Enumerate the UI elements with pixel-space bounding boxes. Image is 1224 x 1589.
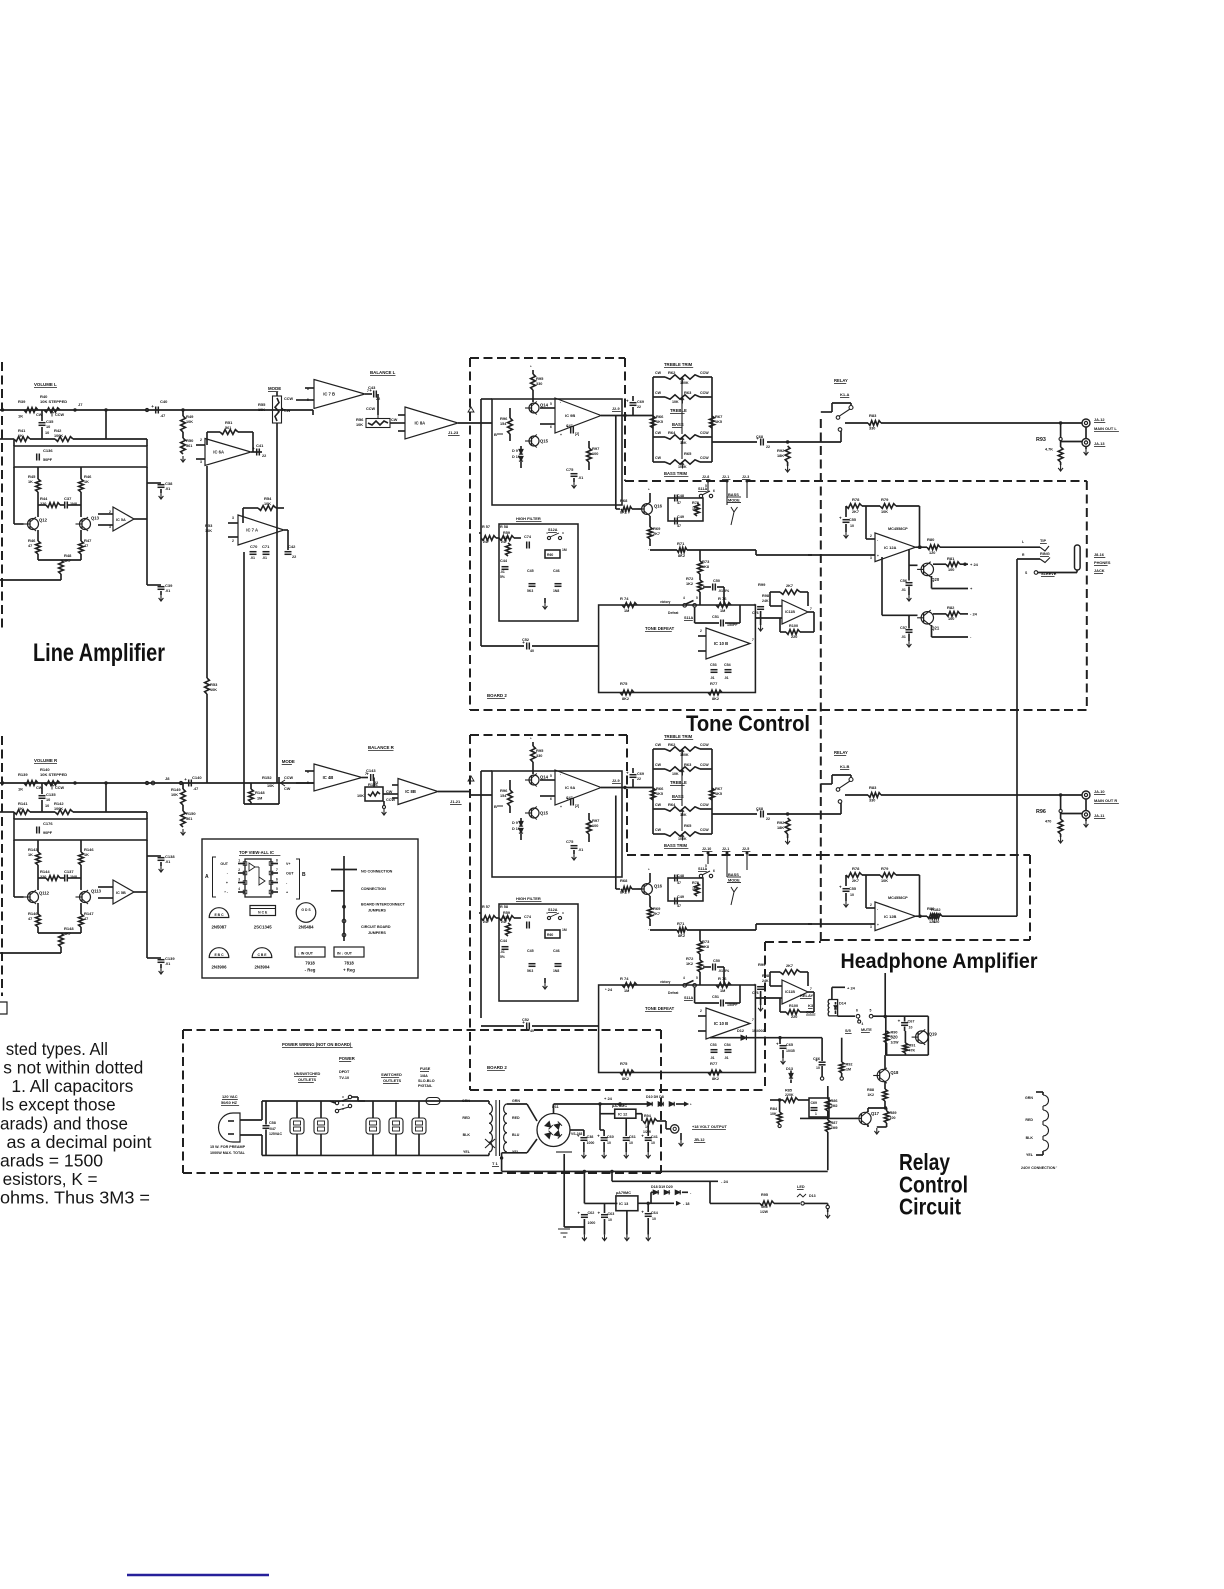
svg-text:SWITCHED: SWITCHED: [381, 1072, 402, 1077]
svg-text:sted types. All: sted types. All: [6, 1039, 108, 1059]
svg-text:JACK: JACK: [1094, 568, 1105, 573]
svg-text:10: 10: [629, 1141, 633, 1145]
svg-text:.01: .01: [901, 635, 906, 639]
svg-text:R39: R39: [18, 399, 26, 404]
svg-text:Q15: Q15: [540, 439, 549, 444]
svg-text:R 58: R 58: [500, 905, 508, 909]
svg-text:+: +: [839, 516, 842, 521]
svg-text:R65: R65: [684, 823, 692, 828]
svg-text:C140: C140: [192, 775, 202, 780]
svg-text:J2-9: J2-9: [612, 407, 620, 411]
svg-text:R54: R54: [264, 496, 272, 501]
svg-text:R96: R96: [500, 788, 508, 793]
svg-text:IC 8A: IC 8A: [415, 421, 426, 426]
svg-text:C64: C64: [651, 1211, 659, 1215]
svg-text:8: 8: [276, 859, 278, 863]
svg-text:R 74: R 74: [620, 976, 629, 981]
svg-text:5: 5: [276, 887, 278, 891]
svg-text:MUTE: MUTE: [861, 1028, 872, 1032]
svg-text:470: 470: [1045, 820, 1051, 824]
svg-text:90PF: 90PF: [43, 831, 53, 835]
svg-text:.01: .01: [250, 556, 255, 560]
svg-text:K1-A: K1-A: [840, 392, 849, 397]
svg-text:* 24: * 24: [605, 987, 613, 992]
svg-text:C47: C47: [566, 424, 573, 428]
svg-text:R92: R92: [846, 1063, 853, 1067]
svg-text:R80: R80: [927, 537, 935, 542]
svg-text:R182: R182: [931, 907, 941, 912]
svg-text:LED: LED: [797, 1185, 805, 1189]
svg-text:R60: R60: [547, 553, 553, 557]
svg-text:+: +: [184, 777, 187, 782]
svg-text:2N3904: 2N3904: [254, 965, 270, 970]
svg-text:+: +: [366, 772, 369, 777]
svg-text:22: 22: [637, 777, 641, 781]
svg-text:.01: .01: [165, 589, 170, 593]
svg-text:2: 2: [700, 629, 702, 633]
svg-text:C137: C137: [64, 869, 74, 874]
svg-text:C65: C65: [786, 1043, 793, 1047]
svg-text:[2]: [2]: [575, 432, 579, 436]
svg-text:.01: .01: [901, 588, 906, 592]
svg-text:4: 4: [862, 1022, 864, 1026]
svg-text:22: 22: [766, 817, 770, 821]
svg-text:R143: R143: [28, 847, 38, 852]
svg-text:R49: R49: [186, 414, 194, 419]
svg-text:8K2: 8K2: [712, 1077, 719, 1081]
svg-text:IC 12A: IC 12A: [884, 545, 897, 550]
svg-text:+: +: [598, 1211, 601, 1216]
svg-text:C68: C68: [756, 807, 763, 811]
svg-text:C46: C46: [553, 569, 560, 573]
svg-text:+: +: [560, 805, 562, 809]
svg-text:Q17: Q17: [871, 1111, 880, 1116]
svg-text:1K5: 1K5: [656, 420, 663, 424]
svg-text:CCW: CCW: [700, 456, 709, 460]
svg-text:3: 3: [870, 556, 872, 560]
svg-text:R 57: R 57: [482, 905, 490, 909]
svg-text:C135: C135: [46, 792, 56, 797]
svg-text:C74: C74: [524, 535, 532, 539]
svg-text:OUTLETS: OUTLETS: [383, 1078, 402, 1083]
svg-text:+: +: [286, 891, 288, 895]
svg-text:R148: R148: [64, 926, 74, 931]
svg-text:UNSWITCHED: UNSWITCHED: [294, 1071, 321, 1076]
svg-text:100: 100: [948, 617, 954, 621]
svg-text:7918: 7918: [305, 961, 315, 966]
svg-text:8K2: 8K2: [712, 697, 719, 701]
svg-text:BOARD 2: BOARD 2: [487, 1065, 507, 1070]
svg-text:1K5: 1K5: [656, 792, 663, 796]
svg-text:R69: R69: [653, 906, 661, 911]
svg-text:MC4558CP: MC4558CP: [888, 527, 908, 531]
svg-text:1: 1: [238, 859, 240, 863]
svg-text:10K: 10K: [680, 441, 687, 445]
svg-text:+: +: [776, 1042, 779, 1047]
svg-text:1M: 1M: [562, 548, 567, 552]
svg-text:R83: R83: [869, 785, 877, 790]
svg-text:7: 7: [752, 638, 754, 642]
svg-text:IC 7 A: IC 7 A: [246, 528, 258, 533]
svg-text:4K7: 4K7: [64, 559, 71, 563]
svg-text:4: 4: [683, 976, 685, 980]
svg-text:IC 10 B: IC 10 B: [714, 1021, 728, 1026]
svg-text:D12: D12: [737, 1029, 744, 1033]
svg-text:IC 8B: IC 8B: [405, 789, 416, 794]
svg-text:BALANCE R: BALANCE R: [368, 745, 395, 750]
svg-text:4K7: 4K7: [64, 932, 71, 936]
svg-text:C52: C52: [522, 1018, 529, 1022]
svg-text:C53: C53: [710, 663, 717, 667]
svg-text:R77: R77: [710, 1061, 718, 1066]
svg-text:10K: 10K: [672, 772, 679, 776]
svg-text:22: 22: [637, 405, 641, 409]
svg-text:+ 24: + 24: [847, 986, 856, 991]
svg-text:+: +: [252, 446, 255, 451]
svg-text:R66: R66: [656, 414, 664, 419]
svg-text:- 24: - 24: [721, 1179, 729, 1184]
svg-text:5: 5: [696, 596, 698, 600]
svg-text:RED: RED: [462, 1116, 470, 1120]
svg-text:R71: R71: [677, 541, 685, 546]
svg-text:C46: C46: [553, 949, 560, 953]
svg-text:C37: C37: [64, 496, 72, 501]
svg-text:MODE: MODE: [728, 878, 740, 883]
svg-text:10K: 10K: [267, 784, 274, 788]
svg-text:Defeat: Defeat: [668, 611, 679, 615]
svg-text:JA-13: JA-13: [1094, 441, 1105, 446]
svg-text:R146: R146: [84, 847, 94, 852]
svg-text:R100: R100: [789, 1004, 798, 1008]
svg-text:CW: CW: [655, 803, 662, 807]
svg-text:CCW: CCW: [366, 407, 375, 411]
svg-text:10: 10: [652, 1217, 656, 1221]
svg-text:+: +: [577, 1134, 580, 1139]
svg-text:7818: 7818: [344, 961, 354, 966]
svg-text:arads) and those: arads) and those: [0, 1113, 128, 1133]
svg-text:R48: R48: [64, 553, 72, 558]
svg-text:J2-1: J2-1: [722, 475, 729, 479]
svg-text:C61: C61: [629, 1135, 636, 1139]
svg-text:MODE: MODE: [728, 498, 740, 503]
svg-text:1M: 1M: [624, 609, 629, 613]
svg-text:.01: .01: [165, 860, 170, 864]
svg-text:1K: 1K: [84, 480, 89, 484]
svg-text:+18 VOLT OUTPUT: +18 VOLT OUTPUT: [692, 1124, 727, 1129]
svg-text:GRN: GRN: [462, 1099, 470, 1103]
svg-text:CW: CW: [655, 456, 662, 460]
svg-text:D18 D19 D20: D18 D19 D20: [651, 1185, 673, 1189]
svg-text:- 18: - 18: [683, 1202, 690, 1206]
svg-text:TOP VIEW-ALL IC: TOP VIEW-ALL IC: [239, 850, 274, 855]
svg-text:.47: .47: [160, 414, 165, 418]
svg-text:R91: R91: [909, 1044, 916, 1048]
svg-text:.01: .01: [165, 487, 170, 491]
svg-text:1K: 1K: [18, 787, 23, 792]
svg-text:Q15: Q15: [540, 811, 549, 816]
svg-text:10: 10: [46, 425, 50, 429]
svg-text:R79: R79: [881, 497, 889, 502]
svg-text:5: 5: [705, 484, 707, 488]
svg-text:561: 561: [186, 444, 192, 448]
svg-text:R149: R149: [171, 787, 181, 792]
svg-text:+: +: [839, 885, 842, 890]
svg-text:C40: C40: [160, 399, 168, 404]
svg-text:22: 22: [262, 454, 266, 458]
svg-text:CW: CW: [655, 828, 662, 832]
svg-text:R95: R95: [761, 1193, 768, 1197]
svg-text:J2-3: J2-3: [742, 475, 749, 479]
svg-text:4: 4: [238, 887, 240, 891]
svg-text:C51: C51: [712, 615, 719, 619]
svg-text:IC 9A: IC 9A: [565, 785, 575, 790]
svg-text:C42: C42: [288, 544, 296, 549]
svg-text:+: +: [877, 923, 879, 927]
svg-text:TIP: TIP: [1040, 538, 1046, 543]
svg-text:10: 10: [46, 798, 50, 802]
svg-text:R139: R139: [18, 772, 28, 777]
svg-text:3: 3: [870, 925, 872, 929]
svg-text:10: 10: [45, 804, 49, 808]
svg-text:1M: 1M: [846, 1068, 851, 1072]
svg-text:2: 2: [232, 539, 234, 543]
svg-text:10: 10: [651, 1141, 655, 1145]
svg-text:-: -: [877, 907, 878, 911]
svg-text:330: 330: [503, 536, 509, 540]
svg-text:1N8: 1N8: [553, 969, 559, 973]
svg-text:TONE DEFEAT: TONE DEFEAT: [645, 626, 675, 631]
svg-text:C138: C138: [165, 854, 175, 859]
svg-text:2N5484: 2N5484: [298, 925, 314, 930]
svg-text:E B C: E B C: [214, 913, 224, 917]
svg-text:220: 220: [791, 635, 797, 639]
svg-text:10K: 10K: [171, 793, 178, 797]
svg-text:1K: 1K: [28, 853, 33, 857]
svg-text:50PF: 50PF: [43, 458, 53, 462]
svg-text:1K: 1K: [18, 414, 23, 419]
svg-text:J8: J8: [165, 776, 170, 781]
svg-text:R60: R60: [547, 933, 553, 937]
svg-text:47: 47: [677, 904, 681, 908]
svg-text:1/8A: 1/8A: [420, 1074, 428, 1078]
svg-text:BOARD INTERCONNECT: BOARD INTERCONNECT: [361, 903, 406, 907]
svg-text:R100: R100: [789, 624, 798, 628]
svg-text:R69: R69: [653, 526, 661, 531]
svg-text:R55: R55: [258, 402, 266, 407]
svg-text:40: 40: [530, 1029, 534, 1033]
svg-text:120: 120: [929, 551, 935, 555]
svg-text:R59: R59: [503, 911, 510, 915]
svg-text:PIGTAIL: PIGTAIL: [418, 1084, 433, 1088]
svg-text:MODE: MODE: [282, 759, 295, 764]
svg-text:10K: 10K: [258, 408, 265, 412]
svg-text:µA79MC: µA79MC: [616, 1191, 631, 1195]
svg-text:R59: R59: [503, 531, 510, 535]
svg-text:1K2: 1K2: [686, 582, 693, 586]
svg-text:R56: R56: [356, 417, 364, 422]
svg-text:C55: C55: [849, 887, 856, 891]
svg-text:IC 12B: IC 12B: [884, 914, 897, 919]
svg-text:100K: 100K: [54, 434, 63, 438]
svg-text:1M: 1M: [257, 797, 262, 801]
svg-text:YEL: YEL: [463, 1150, 471, 1154]
svg-text:50/60 HZ: 50/60 HZ: [221, 1100, 238, 1105]
svg-text:125VAC: 125VAC: [269, 1132, 282, 1136]
svg-text:47K: 47K: [909, 1049, 916, 1053]
svg-text:5: 5: [550, 402, 552, 406]
svg-text:HIGH FILTER: HIGH FILTER: [516, 896, 541, 901]
svg-text:C69: C69: [637, 400, 644, 404]
svg-text:1: 1: [815, 1112, 817, 1116]
svg-text:R96: R96: [500, 416, 508, 421]
svg-text:IC 13: IC 13: [619, 1201, 629, 1206]
svg-text:+: +: [641, 1210, 644, 1215]
svg-text:22: 22: [766, 445, 770, 449]
svg-text:[2]: [2]: [575, 804, 579, 808]
svg-text:R93: R93: [1036, 437, 1046, 443]
svg-text:CCW: CCW: [55, 413, 64, 417]
svg-text:R150: R150: [186, 811, 196, 816]
svg-text:1/2W: 1/2W: [891, 1041, 900, 1045]
svg-text:Q16: Q16: [654, 504, 663, 509]
svg-text:24K: 24K: [762, 979, 769, 983]
svg-text:IC 4B: IC 4B: [323, 775, 334, 780]
svg-text:BALANCE L: BALANCE L: [370, 370, 396, 375]
svg-text:R97: R97: [592, 818, 600, 823]
svg-text:C41: C41: [256, 443, 264, 448]
svg-text:120: 120: [933, 920, 939, 924]
svg-text:C38: C38: [165, 481, 173, 486]
svg-text:D 9: D 9: [512, 449, 518, 453]
svg-text:C136: C136: [43, 448, 53, 453]
svg-text:JA-11: JA-11: [1094, 813, 1105, 818]
svg-text:5%: 5%: [500, 955, 505, 959]
svg-text:OUT: OUT: [286, 872, 294, 876]
svg-text:C45: C45: [527, 949, 534, 953]
svg-text:VOLUME L: VOLUME L: [34, 382, 57, 387]
svg-text:47: 47: [677, 881, 681, 885]
svg-text:victory: victory: [660, 980, 671, 984]
svg-text:R77: R77: [710, 681, 718, 686]
svg-text:100K: 100K: [678, 837, 687, 841]
svg-text:CCW: CCW: [700, 803, 709, 807]
svg-text:Q113: Q113: [91, 889, 102, 894]
svg-text:3: 3: [238, 878, 240, 882]
svg-text:1000: 1000: [587, 1141, 595, 1145]
svg-text:10/35: 10/35: [786, 1049, 795, 1053]
svg-text:RED: RED: [512, 1116, 520, 1120]
svg-text:6: 6: [276, 878, 278, 882]
svg-text:C68: C68: [756, 435, 763, 439]
svg-text:C44: C44: [500, 939, 508, 943]
svg-text:R95: R95: [536, 748, 544, 753]
svg-text:J2-9: J2-9: [612, 779, 620, 783]
svg-text:G D S: G D S: [301, 908, 311, 912]
svg-text:Circuit: Circuit: [899, 1194, 961, 1220]
svg-text:1N4002: 1N4002: [752, 1029, 765, 1033]
svg-text:D14: D14: [839, 1002, 847, 1006]
svg-text:BASS TRIM: BASS TRIM: [664, 471, 688, 476]
svg-text:BASS: BASS: [728, 872, 739, 877]
svg-text:Q18: Q18: [890, 1070, 899, 1075]
svg-text:IC 6A: IC 6A: [213, 450, 224, 455]
svg-text:6: 6: [550, 425, 552, 429]
svg-text:R47: R47: [84, 538, 92, 543]
svg-text:R152: R152: [262, 775, 272, 780]
svg-text:+: +: [754, 603, 757, 608]
svg-text:J1-21: J1-21: [450, 799, 461, 804]
svg-text:+: +: [577, 1211, 580, 1216]
svg-text:JA-12: JA-12: [1094, 417, 1105, 422]
svg-text:1K2: 1K2: [867, 1093, 874, 1097]
svg-text:R78: R78: [852, 866, 860, 871]
svg-text:C35: C35: [46, 419, 54, 424]
svg-text:+: +: [597, 1134, 600, 1139]
svg-text:330: 330: [503, 916, 509, 920]
svg-text:1K: 1K: [28, 480, 33, 484]
svg-text:R141: R141: [18, 801, 28, 806]
svg-text:220K: 220K: [785, 1093, 794, 1097]
svg-text:7M9: 7M9: [831, 1126, 838, 1130]
svg-text:CW: CW: [284, 787, 291, 791]
svg-text:R67: R67: [715, 414, 723, 419]
svg-text:R75: R75: [620, 681, 628, 686]
svg-text:C62: C62: [588, 1211, 595, 1215]
svg-text:5: 5: [550, 774, 552, 778]
svg-text:R68: R68: [620, 498, 628, 503]
svg-text:RING: RING: [1040, 551, 1050, 556]
svg-text:TONE DEFEAT: TONE DEFEAT: [645, 1006, 675, 1011]
svg-text:IC 7 B: IC 7 B: [323, 392, 335, 397]
svg-text:J2-10: J2-10: [702, 847, 711, 851]
svg-text:10K STEPPED: 10K STEPPED: [40, 399, 67, 404]
svg-text:J2-1: J2-1: [722, 847, 729, 851]
svg-text:+: +: [560, 433, 562, 437]
svg-text:2N5087: 2N5087: [211, 925, 227, 930]
svg-text:TREBLE: TREBLE: [670, 780, 687, 785]
svg-text:+ 24: + 24: [970, 562, 979, 567]
svg-text:R148: R148: [255, 790, 265, 795]
svg-text:POWER: POWER: [339, 1056, 355, 1061]
svg-text:47: 47: [84, 544, 88, 548]
svg-text:D 9: D 9: [512, 821, 518, 825]
svg-text:K1-B: K1-B: [840, 764, 849, 769]
svg-text:C67: C67: [908, 1020, 915, 1024]
svg-text:1/2W: 1/2W: [760, 1210, 769, 1214]
svg-text:CW: CW: [655, 391, 662, 395]
svg-text:2: 2: [870, 903, 872, 907]
svg-text:MAIN OUT R: MAIN OUT R: [1094, 798, 1117, 803]
svg-text:RED: RED: [1025, 1118, 1033, 1122]
svg-text:.01: .01: [262, 556, 267, 560]
svg-text:HIGH FILTER: HIGH FILTER: [516, 516, 541, 521]
svg-text:R46: R46: [84, 474, 92, 479]
svg-text:120 VAC: 120 VAC: [222, 1094, 238, 1099]
svg-text:R71: R71: [677, 921, 685, 926]
svg-text:CCW: CCW: [284, 397, 293, 401]
svg-text:10: 10: [607, 1141, 611, 1145]
svg-text:R94: R94: [644, 1114, 652, 1118]
svg-text:R42: R42: [54, 428, 62, 433]
svg-text:IC11B: IC11B: [785, 610, 795, 614]
svg-text:2K7: 2K7: [852, 510, 859, 514]
svg-text:NO CONNECTION: NO CONNECTION: [361, 870, 393, 874]
svg-text:R46: R46: [28, 538, 36, 543]
svg-text:C47: C47: [566, 796, 573, 800]
svg-text:R88: R88: [867, 1088, 874, 1092]
svg-text:C54: C54: [724, 663, 731, 667]
svg-text:IC 5B: IC 5B: [116, 891, 126, 895]
